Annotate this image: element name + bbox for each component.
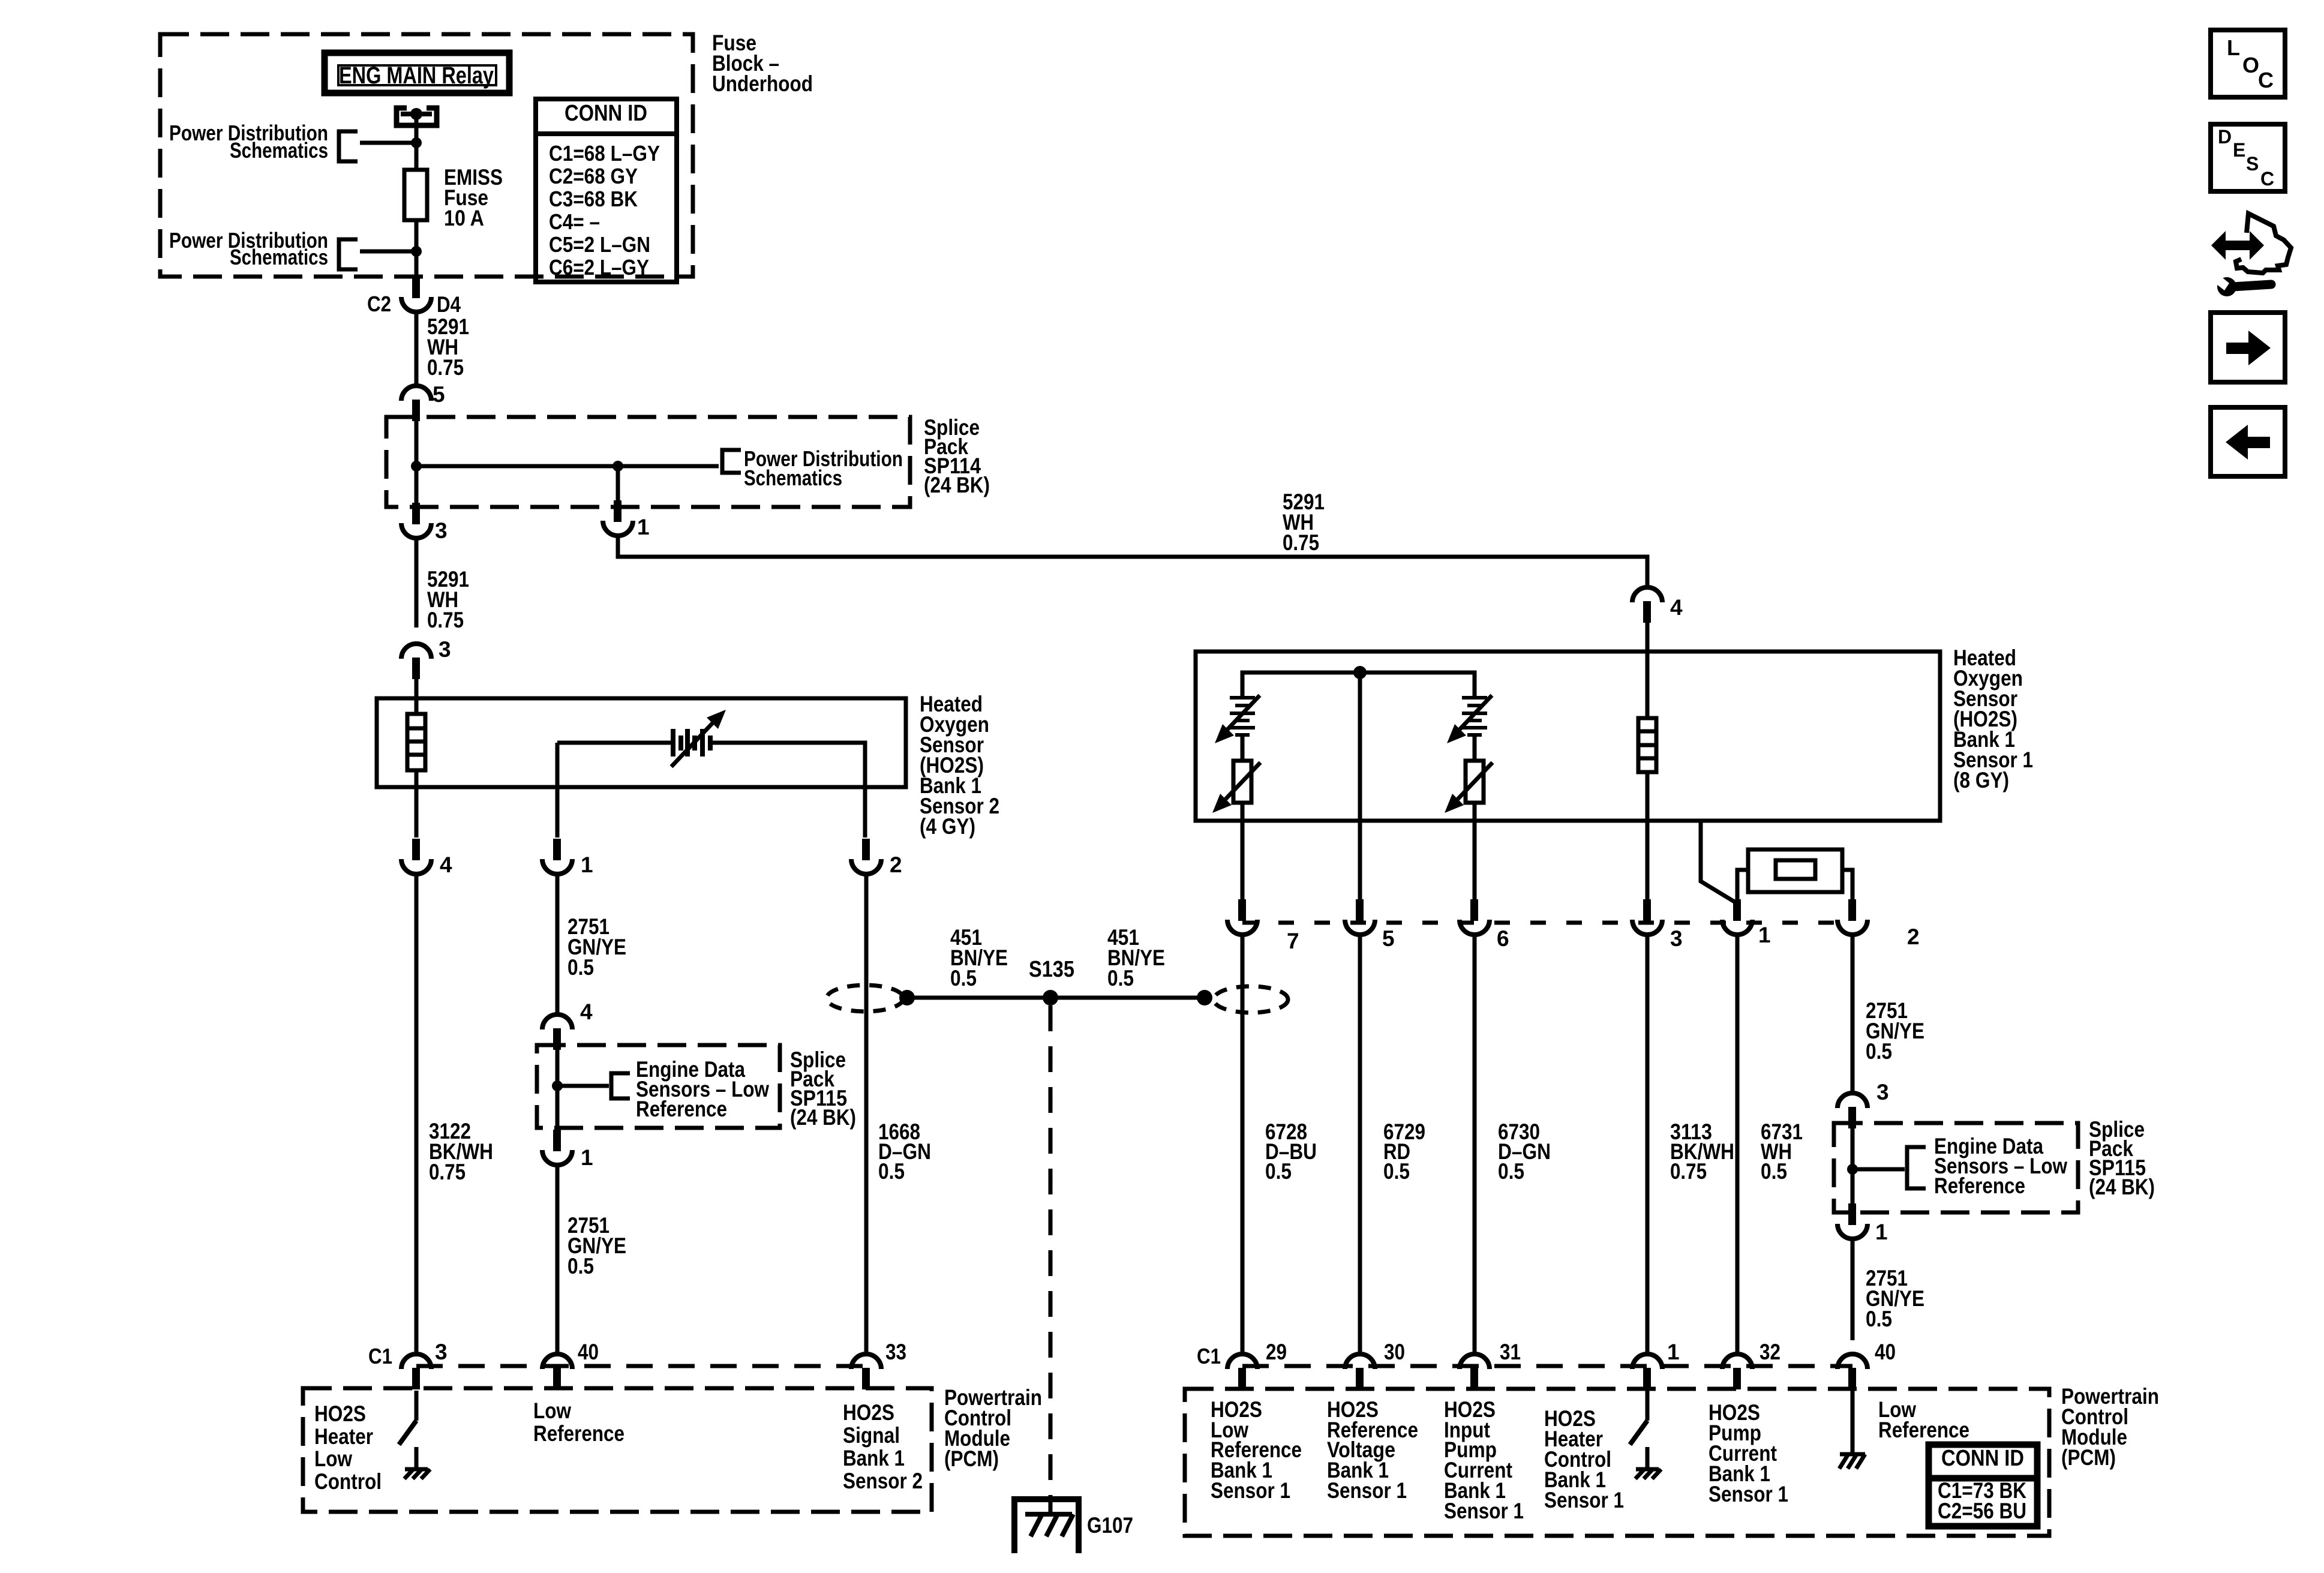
PCM right dashed box	[1185, 1389, 2049, 1536]
connector PCM right pin 29	[1227, 1354, 1257, 1389]
svg-text:Reference: Reference	[1934, 1173, 2025, 1198]
svg-text:C1=68 L–GY: C1=68 L–GY	[549, 141, 660, 166]
svg-text:1: 1	[1667, 1340, 1680, 1364]
svg-text:(24 BK): (24 BK)	[924, 473, 990, 497]
wire pin5 down	[1358, 934, 1362, 1352]
connector 1 below SP115 left	[542, 1130, 572, 1165]
svg-text:3: 3	[1670, 926, 1683, 951]
svg-text:0.5: 0.5	[1498, 1159, 1524, 1184]
HO2S bank 1 sensor 1 box	[1196, 652, 1940, 821]
wire SP115 left down	[556, 1086, 560, 1130]
wire into SP115 left	[556, 1049, 560, 1086]
wire pin7 down	[1241, 934, 1245, 1352]
wire SP114 down to conn 1	[616, 466, 620, 502]
connector PCM right pin 32	[1722, 1354, 1752, 1389]
wire pin1 down	[1736, 934, 1740, 1352]
wire battery left lead	[557, 741, 671, 745]
off-page bracket 2	[339, 239, 358, 269]
icon button DESC	[2211, 124, 2285, 191]
node junction 2	[411, 246, 422, 257]
jumper right lead	[1842, 870, 1852, 900]
svg-text:(PCM): (PCM)	[2061, 1445, 2116, 1470]
svg-text:C2: C2	[367, 292, 391, 316]
ground G107 comb	[1025, 1514, 1073, 1536]
inline connector ellipse left S135	[827, 985, 903, 1011]
connector 3 below SP114	[401, 503, 431, 538]
connector PCM right pin 30	[1345, 1354, 1375, 1389]
svg-text:1: 1	[637, 515, 650, 539]
off-page bracket 1	[339, 131, 358, 161]
svg-text:0.75: 0.75	[1283, 530, 1319, 555]
svg-text:0.75: 0.75	[429, 1160, 466, 1184]
wire pin6 down	[1473, 934, 1477, 1352]
connector 1 below SP114	[603, 500, 633, 536]
svg-text:D: D	[2218, 126, 2232, 148]
wire S135 right segment	[1050, 996, 1205, 1000]
battery element left HO2S (variable EMF)	[671, 729, 713, 757]
svg-text:ENG MAIN Relay: ENG MAIN Relay	[339, 62, 494, 89]
svg-text:4: 4	[580, 999, 593, 1024]
svg-text:Control: Control	[314, 1469, 382, 1494]
svg-text:3: 3	[435, 1340, 448, 1364]
wire fuse to junction 2	[415, 220, 419, 251]
wire SP114 to bracket	[618, 464, 719, 469]
svg-text:29: 29	[1266, 1340, 1287, 1364]
fuse block - underhood dashed box	[160, 34, 693, 277]
ground wire under pin 40 right	[1851, 1391, 1855, 1454]
svg-text:0.75: 0.75	[427, 355, 464, 380]
sensor cell 1 variable resistor	[1233, 761, 1251, 803]
connector pin 7 sensor row	[1227, 899, 1257, 935]
wire junction 2 to fuse block edge	[415, 251, 419, 277]
sensor cell wire left	[556, 743, 560, 837]
svg-text:C1: C1	[368, 1344, 392, 1368]
connector PCM right pin 1	[1632, 1354, 1662, 1389]
icon button LOC	[2211, 30, 2285, 97]
relay K ENG MAIN Relay box	[325, 53, 509, 93]
sensor cell 2 battery arrow	[1447, 695, 1492, 743]
HO2S bank 1 sensor 2 box	[377, 698, 906, 787]
sensor cell 2 mid wire	[1473, 737, 1477, 761]
svg-text:4: 4	[1670, 595, 1683, 620]
CONN ID table top	[536, 99, 677, 282]
svg-text:(24 BK): (24 BK)	[790, 1105, 856, 1130]
wire conn3 to conn3b	[415, 538, 419, 628]
wire long run conn1 to conn4 right	[618, 535, 1647, 586]
svg-text:(24 BK): (24 BK)	[2089, 1175, 2155, 1199]
svg-text:Sensor 1: Sensor 1	[1544, 1488, 1624, 1512]
battery arrow left	[671, 710, 726, 767]
ground wire right switch	[1646, 1447, 1650, 1469]
ground comb under pin 40 right	[1839, 1454, 1865, 1469]
sensor cell 1 mid wire	[1241, 737, 1245, 761]
svg-text:30: 30	[1384, 1340, 1405, 1364]
heater element right	[1638, 718, 1656, 772]
svg-text:E: E	[2233, 139, 2245, 161]
wire pin5 column	[1358, 673, 1362, 900]
connector C2 pin D4	[401, 277, 431, 312]
wire pin4 down to PCM pin 3	[415, 873, 419, 1352]
connector 2 below left HO2S	[851, 839, 881, 874]
connector pin 1 sensor row	[1722, 899, 1752, 935]
svg-text:S135: S135	[1029, 957, 1074, 982]
wire conn3b into left HO2S box	[415, 679, 419, 714]
connector 1 below left HO2S	[542, 839, 572, 874]
wire heater to box bottom	[415, 770, 419, 837]
wire pin2 down to PCM pin 33	[864, 873, 869, 1352]
svg-text:0.5: 0.5	[1866, 1039, 1892, 1064]
icon vehicle with arrow and wrench	[2211, 214, 2291, 296]
svg-text:0.5: 0.5	[568, 955, 594, 980]
svg-text:4: 4	[440, 852, 452, 877]
splice S135 node	[1043, 990, 1058, 1005]
splice pack SP115 left dashed box	[537, 1045, 780, 1128]
svg-text:Sensor 1: Sensor 1	[1327, 1478, 1407, 1503]
svg-text:(8 GY): (8 GY)	[1953, 768, 2009, 792]
wire branch 1 to off-page ref	[360, 141, 416, 145]
svg-text:C5=2 L–GN: C5=2 L–GN	[549, 232, 650, 257]
svg-text:0.75: 0.75	[427, 608, 464, 632]
dashed ground wire S135 to G107	[1049, 1005, 1053, 1512]
svg-text:0.5: 0.5	[1761, 1159, 1787, 1184]
wire relay to junction	[415, 114, 419, 143]
svg-text:32: 32	[1759, 1340, 1780, 1364]
svg-text:Schematics: Schematics	[230, 138, 328, 163]
wire sensor top bus	[1242, 673, 1475, 696]
wire conn1 down to PCM pin 40	[556, 1164, 560, 1352]
sensor cell 1 battery arrow	[1215, 695, 1260, 743]
splice pack SP114 dashed box	[386, 417, 910, 507]
node SP114 junction B	[612, 461, 623, 472]
svg-text:CONN ID: CONN ID	[565, 101, 647, 126]
node SP114 junction A	[411, 461, 422, 472]
svg-text:3: 3	[439, 637, 451, 662]
connector pin 6 sensor row	[1460, 899, 1490, 935]
svg-text:40: 40	[578, 1340, 599, 1364]
connector 4 below left HO2S	[401, 839, 431, 874]
svg-text:G107: G107	[1087, 1513, 1133, 1538]
wire box bottom to pin 1 diagonal	[1701, 821, 1737, 903]
ground comb left switch	[404, 1469, 430, 1479]
svg-text:2: 2	[1907, 924, 1920, 949]
connector PCM right pin 40	[1837, 1354, 1867, 1389]
svg-text:Low: Low	[533, 1398, 571, 1423]
svg-text:40: 40	[1875, 1340, 1896, 1364]
wire SP114 down to conn 3	[415, 466, 419, 504]
connector 3 above HO2S bank1 sensor2	[401, 644, 431, 679]
svg-text:C6=2 L–GY: C6=2 L–GY	[549, 255, 649, 280]
connector pin 5 sensor row	[1345, 899, 1375, 935]
wire C2D4 to conn 5	[415, 311, 419, 384]
svg-text:5: 5	[433, 382, 445, 407]
svg-text:Sensor 2: Sensor 2	[843, 1469, 923, 1493]
svg-text:Bank 1: Bank 1	[843, 1446, 905, 1470]
svg-text:C: C	[2260, 168, 2274, 190]
sensor cell 1 bottom wire	[1241, 803, 1245, 900]
svg-text:L: L	[2227, 35, 2240, 60]
svg-text:2: 2	[890, 852, 902, 877]
svg-text:C2=56 BU: C2=56 BU	[1938, 1499, 2026, 1523]
sensor cell 2 battery	[1462, 696, 1487, 737]
jumper component above pins 1-2	[1748, 849, 1842, 892]
svg-text:0.75: 0.75	[1670, 1159, 1707, 1184]
wire pin3 down	[1646, 934, 1650, 1352]
fuse F EMISS	[404, 170, 427, 220]
svg-text:(PCM): (PCM)	[944, 1446, 999, 1471]
svg-text:Schematics: Schematics	[230, 245, 328, 269]
svg-text:D4: D4	[437, 292, 461, 317]
node S135 wire left dot	[899, 990, 915, 1005]
node SP115 left junction	[552, 1080, 563, 1091]
svg-text:7: 7	[1287, 929, 1299, 953]
svg-text:0.5: 0.5	[568, 1254, 594, 1278]
harness connector row dashed line	[1242, 921, 1852, 925]
svg-text:CONN ID: CONN ID	[1941, 1446, 2024, 1471]
connector pin 2 sensor row	[1837, 899, 1867, 935]
switch HO2S heater control right	[1630, 1391, 1647, 1445]
sensor cell 1 battery	[1230, 696, 1255, 737]
svg-text:31: 31	[1500, 1340, 1521, 1364]
svg-text:1: 1	[1875, 1220, 1888, 1244]
relay contact symbol	[397, 108, 437, 125]
jumper left lead	[1737, 870, 1748, 903]
svg-text:0.5: 0.5	[1866, 1307, 1892, 1331]
svg-text:Heater: Heater	[314, 1424, 373, 1449]
svg-text:1: 1	[1758, 923, 1771, 947]
sensor cell 2 variable resistor	[1466, 761, 1484, 803]
svg-text:1: 1	[581, 1145, 593, 1170]
svg-text:C1: C1	[1197, 1344, 1221, 1368]
svg-text:Sensor 1: Sensor 1	[1444, 1499, 1524, 1523]
connector 4 above right HO2S	[1632, 587, 1662, 623]
node junction 1	[411, 137, 422, 148]
node top bus junction	[1353, 666, 1367, 679]
wire conn1 right down to PCM pin 40	[1851, 1238, 1855, 1340]
wire battery right lead	[713, 743, 865, 837]
svg-text:0.5: 0.5	[878, 1159, 905, 1184]
wire into SP114	[415, 420, 419, 466]
svg-text:Reference: Reference	[636, 1097, 727, 1121]
svg-text:Signal: Signal	[843, 1423, 900, 1448]
wire conn4 into right HO2S box	[1646, 623, 1650, 718]
svg-text:10 A: 10 A	[444, 206, 484, 230]
svg-text:S: S	[2246, 153, 2259, 175]
sensor cell 1 resistor arrow	[1212, 763, 1260, 813]
svg-text:1: 1	[581, 852, 593, 877]
icon button forward arrow	[2211, 313, 2285, 382]
svg-text:Reference: Reference	[1878, 1418, 1969, 1442]
svg-text:3: 3	[435, 518, 448, 543]
svg-text:Underhood: Underhood	[712, 71, 813, 96]
svg-text:HO2S: HO2S	[314, 1401, 366, 1426]
connector pin 3 sensor row	[1632, 899, 1662, 935]
PCM left dashed box	[303, 1388, 932, 1512]
sensor cell 2 resistor arrow	[1445, 763, 1493, 813]
wire SP115 right to bracket	[1852, 1167, 1905, 1172]
svg-text:Sensor 1: Sensor 1	[1211, 1478, 1290, 1503]
svg-text:5: 5	[1382, 926, 1395, 951]
svg-text:(4 GY): (4 GY)	[920, 814, 975, 839]
wire S135 left segment	[907, 996, 1050, 1000]
connector PCM left pin 40	[542, 1354, 572, 1389]
wire junction1 to fuse	[415, 143, 419, 170]
connector PCM right pin 31	[1460, 1354, 1490, 1389]
svg-text:33: 33	[885, 1340, 906, 1364]
ground wire left switch	[415, 1447, 419, 1469]
svg-text:0.5: 0.5	[950, 966, 977, 990]
off-page bracket SP115 right	[1907, 1147, 1926, 1188]
wire branch 2 to off-page ref	[360, 250, 416, 254]
inline connector ellipse right S135	[1214, 986, 1288, 1013]
svg-text:Sensor 1: Sensor 1	[1709, 1482, 1788, 1506]
PCM right connector row dashed line	[1242, 1364, 1852, 1368]
CONN ID table right	[1929, 1445, 2037, 1526]
svg-text:O: O	[2242, 53, 2259, 77]
wire pin2 down to conn3 right	[1851, 934, 1855, 1091]
wire pin1 down to conn 4 SP115	[556, 873, 560, 1013]
svg-text:C3=68 BK: C3=68 BK	[549, 187, 638, 211]
svg-text:0.5: 0.5	[1383, 1159, 1410, 1184]
node SP115 right junction	[1847, 1164, 1858, 1175]
svg-text:Low: Low	[314, 1446, 352, 1471]
off-page bracket SP115 left	[611, 1073, 630, 1098]
svg-text:0.5: 0.5	[1265, 1159, 1292, 1184]
wire into SP115 right	[1851, 1127, 1855, 1169]
splice pack SP115 right dashed box	[1834, 1123, 2078, 1212]
svg-text:C4= –: C4= –	[549, 209, 600, 234]
wire SP115 left to bracket	[557, 1084, 609, 1088]
PCM left connector row dashed line	[416, 1364, 866, 1368]
wire SP115 right down	[1851, 1169, 1855, 1214]
connector 4 above SP115 left	[542, 1014, 572, 1050]
wire SP114 horizontal	[416, 464, 618, 469]
ground comb right switch	[1635, 1469, 1661, 1479]
heater element left	[407, 714, 425, 770]
off-page bracket SP114	[722, 450, 741, 473]
svg-text:Schematics: Schematics	[744, 466, 842, 490]
connector 5 into SP114	[401, 386, 431, 421]
icon button back arrow	[2211, 407, 2285, 476]
svg-text:C2=68 GY: C2=68 GY	[549, 164, 638, 188]
connector PCM left pin 33	[851, 1354, 881, 1389]
connector 1 below SP115 right	[1837, 1203, 1867, 1239]
svg-text:0.5: 0.5	[1107, 966, 1134, 990]
svg-text:6: 6	[1497, 926, 1509, 951]
svg-text:HO2S: HO2S	[843, 1400, 894, 1425]
connector 3 above SP115 right	[1837, 1093, 1867, 1128]
connector PCM left pin 3	[401, 1354, 431, 1389]
svg-text:3: 3	[1876, 1080, 1889, 1104]
wire heater right to pin 3	[1646, 772, 1650, 900]
switch HO2S heater low control left	[399, 1391, 416, 1445]
svg-text:C: C	[2258, 68, 2274, 92]
node S135 wire right dot	[1197, 990, 1212, 1005]
svg-text:Reference: Reference	[533, 1421, 624, 1446]
sensor cell 2 bottom wire	[1473, 803, 1477, 900]
ground G107 bracket	[1014, 1499, 1079, 1553]
